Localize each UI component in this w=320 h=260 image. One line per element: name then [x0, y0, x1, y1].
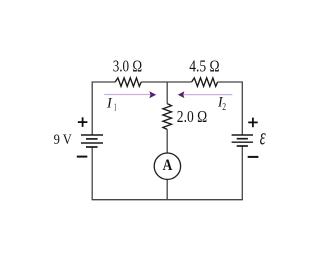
resistor R3 2.0 ohm (vertical zigzag, middle branch) [163, 104, 172, 130]
battery B1 9V: long plate top [81, 134, 103, 136]
svg-text:1: 1 [114, 102, 117, 113]
battery B2 minus sign [248, 156, 259, 158]
battery B2 EMF: long plate top [232, 134, 253, 136]
battery B2: short plate [237, 138, 248, 140]
battery B2: long plate [232, 141, 253, 143]
wire: middle branch ammeter to bottom rail [166, 180, 168, 200]
svg-text:3.0 Ω: 3.0 Ω [113, 56, 142, 75]
svg-text:ε: ε [260, 124, 266, 150]
battery B1 minus sign [77, 156, 88, 158]
wire: bottom rail [92, 199, 243, 201]
current arrow I1 shaft [104, 94, 150, 96]
current arrow I2 head [178, 91, 185, 98]
battery B1: short plate bottom [86, 146, 98, 148]
svg-text:I: I [106, 96, 113, 112]
battery B1 plus sign [78, 117, 88, 127]
wire: top middle segment between R1 and R2 [141, 81, 191, 83]
resistor R1 3.0 ohm (zigzag, top-left) [115, 78, 141, 87]
svg-text:A: A [163, 157, 173, 174]
wire: middle branch top (junction to R3) [166, 82, 168, 104]
battery B1: long plate [81, 142, 103, 144]
battery B2: short plate bottom [237, 145, 248, 147]
ammeter A (circle) [154, 153, 180, 179]
resistor R2 4.5 ohm (zigzag, top-right) [192, 78, 218, 87]
battery B2 plus sign [248, 118, 258, 128]
battery B1: short plate [86, 138, 98, 140]
wire: right side below battery [241, 146, 243, 200]
svg-text:2.0 Ω: 2.0 Ω [177, 107, 207, 126]
wire: left side below battery to bottom-left corner [91, 147, 93, 200]
wire: top-right segment [218, 82, 243, 135]
svg-text:9 V: 9 V [54, 132, 72, 148]
current arrow I1 head [149, 91, 156, 98]
svg-text:2: 2 [222, 102, 226, 113]
wire: top-left segment [92, 82, 115, 135]
wire: middle branch between R3 and ammeter [166, 129, 168, 153]
svg-text:4.5 Ω: 4.5 Ω [189, 56, 219, 75]
current arrow I2 shaft [184, 94, 233, 96]
